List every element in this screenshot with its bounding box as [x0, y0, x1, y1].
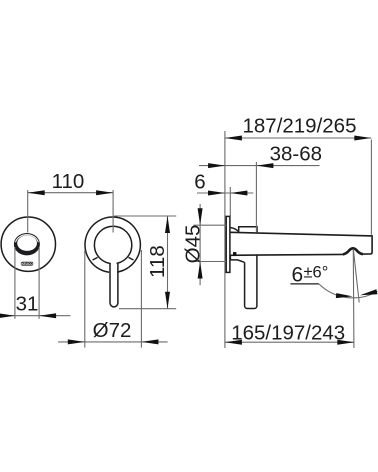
- tick mark lower-right: [129, 257, 134, 260]
- angle reference vertical line: [352, 249, 355, 348]
- dimension O72 extension right: [140, 250, 142, 348]
- sleeve top curve: [230, 228, 238, 232]
- svg-text:Ø72: Ø72: [93, 319, 132, 342]
- sleeve bump: [239, 227, 257, 232]
- centerline right: [112, 190, 114, 233]
- spout body: [230, 232, 372, 254]
- knob rim highlight: [16, 235, 39, 243]
- dimension 118 line: [167, 216, 169, 309]
- arrow 6 left: [208, 191, 225, 196]
- arrow 110 right: [96, 190, 113, 195]
- arrow angle right: [360, 289, 378, 295]
- svg-text:110: 110: [52, 170, 85, 193]
- stem mask: [111, 260, 117, 306]
- svg-text:6: 6: [194, 171, 205, 194]
- arrow 31 left: [0, 313, 15, 318]
- dimension 6 line: [197, 192, 253, 194]
- dimension 31 extension right: [38, 247, 40, 319]
- svg-text:±6°: ±6°: [304, 264, 329, 282]
- arrow 110 left: [28, 190, 45, 195]
- svg-text:165/197/243: 165/197/243: [231, 322, 345, 345]
- wall line: [224, 131, 226, 348]
- aerator wave: [343, 248, 363, 254]
- arrow 118 bottom: [165, 292, 170, 309]
- spout bottom edge: [230, 253, 343, 256]
- dimension 118 extension top: [114, 215, 176, 217]
- plate front extension line: [229, 187, 231, 216]
- svg-text:31: 31: [16, 292, 39, 315]
- dimension 165/197/243 line: [225, 341, 354, 343]
- arrow O72 left: [68, 339, 85, 344]
- arrow 31 right: [39, 313, 56, 318]
- dimension 118 extension bottom: [119, 308, 176, 310]
- arrow 187 left: [225, 136, 242, 141]
- arrow 38-68 right: [256, 163, 273, 168]
- knob inner face (white): [17, 235, 37, 251]
- angle tilted line: [353, 249, 359, 303]
- dimension 31 line: [0, 315, 71, 317]
- extension 38-68 right: [255, 162, 257, 232]
- dimension O45 line: [199, 204, 201, 285]
- dimension 110 line: [28, 192, 113, 194]
- lever handle side: [245, 255, 257, 308]
- tick mark lower-left: [93, 257, 98, 260]
- neck below spout: [230, 255, 244, 262]
- dimension O45 extension top: [194, 224, 227, 226]
- arrow O45 bottom: [198, 262, 203, 279]
- svg-text:187/219/265: 187/219/265: [242, 115, 356, 138]
- arrow 38-68 left: [208, 163, 225, 168]
- arrow angle left: [336, 293, 353, 298]
- pivot pin: [233, 252, 236, 256]
- arrow 165 right: [337, 340, 354, 345]
- svg-text:Ø45: Ø45: [181, 225, 204, 264]
- dimension 38-68 line: [199, 165, 320, 167]
- knob outer ring (dark): [14, 233, 40, 255]
- arrow 165 left: [225, 340, 242, 345]
- svg-text:6: 6: [292, 263, 304, 286]
- handle ring inner circle: [94, 226, 131, 263]
- dimension 187/219/265 line: [225, 137, 371, 139]
- dimension O45 extension bottom: [194, 261, 227, 263]
- svg-text:KEUCO: KEUCO: [21, 262, 33, 266]
- extension spout tip: [370, 140, 372, 235]
- escutcheon plate side: [226, 216, 230, 272]
- dimension 31 extension left: [14, 247, 16, 319]
- svg-text:118: 118: [146, 245, 169, 278]
- arrow O45 top: [198, 208, 203, 225]
- logo badge: [21, 262, 33, 266]
- angle leader arc: [319, 284, 378, 298]
- arrow O72 right: [141, 339, 158, 344]
- svg-text:38-68: 38-68: [270, 142, 322, 165]
- underline 6+-6: [290, 283, 319, 285]
- wall plate circle (left escutcheon): [1, 217, 55, 271]
- handle circle outer (right escutcheon): [85, 217, 140, 272]
- arrow 6 right: [230, 191, 247, 196]
- arrow 187 right: [354, 136, 371, 141]
- handle stem outline: [110, 263, 118, 307]
- dimension O72 extension left: [84, 250, 86, 348]
- centerline left: [27, 190, 29, 233]
- dimension O72 line: [58, 341, 168, 343]
- arrow 118 top: [165, 216, 170, 233]
